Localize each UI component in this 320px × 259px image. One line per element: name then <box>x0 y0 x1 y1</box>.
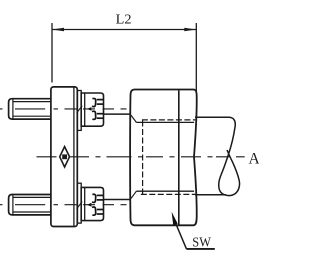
pipe top edge with break curve <box>195 117 240 195</box>
stud thread lines (bottom) <box>13 196 51 198</box>
washer strip (bottom) <box>77 183 81 223</box>
thread curl glyph upper (bottom) <box>92 194 96 202</box>
stud centerline (bottom) <box>0 204 127 206</box>
seal diamond core <box>62 154 67 159</box>
pipe bottom edge <box>195 194 226 196</box>
svg-text:L2: L2 <box>116 13 132 28</box>
bore chamfer diagonal bottom <box>131 191 137 199</box>
flange plate <box>51 87 77 227</box>
hidden thread bottom dashed <box>141 193 196 195</box>
seal diamond symbol <box>60 147 70 167</box>
flange inner edge <box>73 87 75 226</box>
washer diagonal tick (top) <box>77 106 83 113</box>
insertion arrow (top) <box>87 107 92 111</box>
stud bolt (top) <box>9 99 52 119</box>
nut washer face line (bottom) <box>84 187 86 220</box>
dimension arrow right <box>184 28 196 31</box>
bore bottom solid line <box>136 190 194 192</box>
washer diagonal tick (bottom) <box>77 202 83 209</box>
SW underline <box>186 248 215 250</box>
bore chamfer diagonal top <box>131 115 137 122</box>
washer strip (top) <box>77 91 81 131</box>
stud chamfer line (top) <box>12 99 14 119</box>
stud thread lines (top) <box>13 101 51 103</box>
SW arrowhead <box>172 212 178 225</box>
dimension line L2 <box>52 29 196 31</box>
body tube top edge <box>104 113 131 115</box>
bore top solid line <box>136 121 194 123</box>
svg-text:A: A <box>249 150 260 167</box>
stud chamfer line (bottom) <box>12 195 14 215</box>
extension line right <box>195 23 197 91</box>
extension line left <box>51 23 53 83</box>
thread dashes (bottom) <box>97 194 104 196</box>
hex nut outline <box>130 90 197 226</box>
stud centerline (top) <box>0 108 127 110</box>
thread curl glyph upper (top) <box>92 98 96 106</box>
nut block (bottom) <box>81 187 103 220</box>
nut block (top) <box>81 93 103 126</box>
stud bolt (bottom) <box>9 195 52 215</box>
nut washer face line (top) <box>84 93 86 126</box>
dimension arrow left <box>52 28 64 31</box>
insertion arrow (bottom) <box>87 203 92 207</box>
thread curl glyph lower (top) <box>92 111 96 119</box>
thread dashes (top) <box>97 99 104 101</box>
hidden thread top dashed <box>142 119 196 121</box>
main axis centerline <box>37 156 245 158</box>
body tube bottom edge <box>104 199 131 201</box>
hex flat line <box>178 90 180 224</box>
hidden thread end dashed vertical <box>142 121 144 195</box>
SW leader line <box>175 222 187 249</box>
thread curl glyph lower (bottom) <box>92 207 96 215</box>
